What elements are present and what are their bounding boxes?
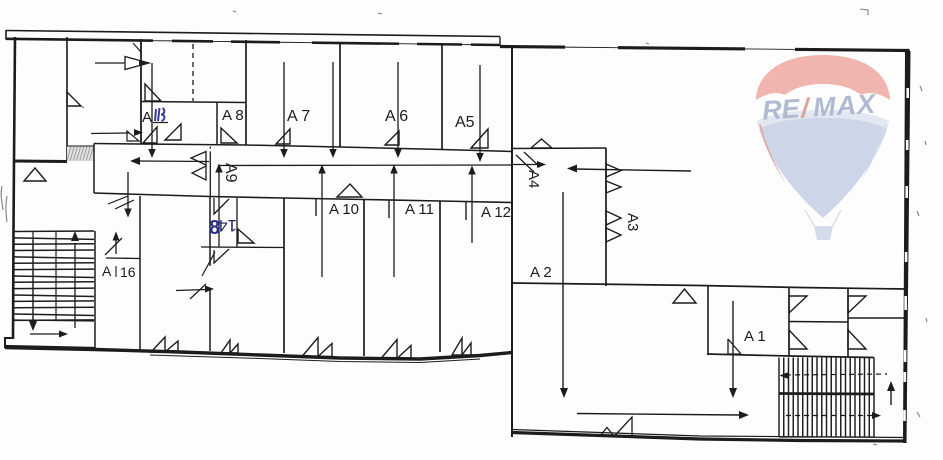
svg-text:A 6: A 6 [385, 108, 408, 125]
svg-text:A 12: A 12 [481, 204, 511, 221]
svg-text:A5: A5 [455, 114, 475, 131]
svg-text:A9: A9 [222, 163, 239, 183]
svg-text:MAX: MAX [812, 89, 878, 123]
svg-text:A3: A3 [624, 213, 641, 231]
svg-text:RE: RE [761, 93, 801, 125]
svg-text:14: 14 [218, 216, 237, 235]
svg-text:A 1: A 1 [744, 328, 766, 345]
svg-text:A 2: A 2 [530, 264, 552, 281]
svg-text:A: A [102, 263, 112, 279]
svg-text:A4: A4 [525, 170, 542, 188]
svg-text:A 11: A 11 [405, 201, 434, 218]
svg-text:A 7: A 7 [287, 108, 310, 125]
svg-text:16: 16 [120, 264, 136, 280]
svg-text:A: A [142, 109, 152, 126]
svg-text:A 10: A 10 [329, 201, 359, 218]
svg-text:A 8: A 8 [222, 107, 244, 124]
